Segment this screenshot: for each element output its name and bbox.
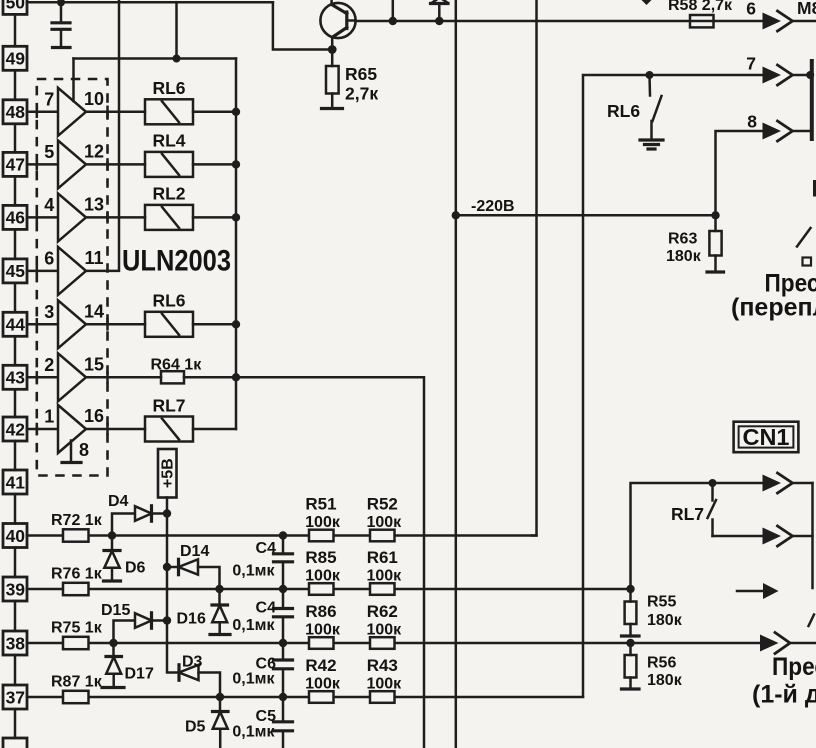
node junction D3/D5 on pin37 row (216, 693, 224, 701)
junction dot on ULN top rail (173, 55, 181, 63)
svg-text:R75 1к: R75 1к (51, 620, 103, 637)
buffer U1b pin 5 to pin 12 (44, 140, 104, 188)
svg-text:180к: 180к (666, 248, 702, 265)
node junction transistor emitter / R65 (328, 45, 337, 54)
svg-text:0,1мк: 0,1мк (232, 563, 275, 580)
svg-text:100к: 100к (366, 622, 402, 639)
resistor R63 180k (666, 215, 724, 272)
wire pin 50 row across top (27, 1, 273, 4)
resistor R65 2,7k (322, 50, 379, 109)
wire RL7 contact feed corner (631, 483, 763, 589)
wire rail corner down = relay bus x236 (235, 59, 238, 430)
svg-text:0,1мк: 0,1мк (232, 671, 275, 688)
node junction D4/D6 on pin40 row (108, 531, 116, 539)
capacitor C (top-left, to ground bar) (52, 2, 70, 47)
wire pin 43 to ULN input (27, 376, 58, 379)
node junction D14/D16 on pin39 row (215, 585, 223, 593)
node junction capacitor column (279, 693, 287, 701)
svg-text:3: 3 (44, 302, 54, 322)
node junction RL7 switch row (709, 479, 717, 487)
wire buffer output to relay (86, 111, 145, 114)
resistor R51 100k (305, 495, 341, 542)
wire vertical x536 from top down to pin40 row (532, 0, 537, 536)
pin 7 connector arrow (746, 54, 814, 86)
diode D17 (102, 643, 154, 688)
svg-text:C5: C5 (256, 708, 277, 725)
svg-text:(перепл: (перепл (731, 294, 816, 322)
wire pin 50 to pin 49 (14, 14, 17, 46)
node junction cap C at pin50 row (57, 0, 65, 6)
relay RL6 coil (145, 78, 193, 125)
svg-text:М8: М8 (797, 0, 816, 18)
svg-text:R63: R63 (668, 231, 697, 248)
relay RL4 coil (145, 130, 193, 177)
wire relay to bus (193, 163, 236, 166)
resistor R72 (51, 512, 103, 542)
wire pin 40 to pin 39 (14, 548, 17, 578)
svg-text:R85: R85 (305, 548, 336, 567)
svg-text:48: 48 (6, 102, 26, 122)
wire row 8 corner down to -220V row (716, 131, 763, 215)
wire relay to bus (193, 323, 236, 326)
svg-text:100к: 100к (305, 568, 341, 585)
node junction RL6 switch on row 7 (646, 71, 654, 79)
node junction R64 row on relay bus (232, 373, 240, 381)
svg-text:100к: 100к (305, 676, 341, 693)
svg-text:2: 2 (44, 355, 54, 375)
wire CN1 right edge vertical (811, 483, 814, 588)
wire pin 48 to pin 47 (14, 124, 17, 153)
svg-text:42: 42 (6, 419, 26, 439)
node stub up at x393 (389, 0, 397, 25)
connector pin 45 (3, 259, 27, 283)
resistor R87 (51, 674, 103, 704)
diode D6 (104, 536, 146, 582)
connector pin 36 (3, 738, 27, 748)
wire pin 45 to ULN input (27, 270, 58, 273)
ground symbol under RL6 switch (640, 140, 663, 149)
svg-text:R42: R42 (305, 656, 336, 675)
wire transistor collector row (356, 20, 763, 23)
svg-text:12: 12 (84, 141, 104, 161)
buffer U1f pin 2 to pin 15 (44, 353, 104, 401)
node junction capacitor column (279, 531, 287, 539)
connector edge bar right (810, 61, 814, 139)
node junction on relay bus (232, 320, 240, 328)
resistor R64 1k (151, 357, 203, 384)
connector pin 41 (3, 470, 27, 494)
wire net -220V (456, 214, 716, 217)
svg-text:41: 41 (6, 472, 26, 492)
svg-text:R51: R51 (305, 495, 336, 514)
power rail +5V vertical (167, 514, 179, 673)
svg-text:8: 8 (79, 440, 89, 460)
wire pin 41 to pin 40 (14, 494, 17, 524)
svg-text:46: 46 (6, 208, 26, 228)
capacitor C5 0,1mk (232, 697, 292, 748)
resistor R43 100k (366, 656, 402, 703)
svg-text:R86: R86 (305, 602, 336, 621)
buffer U1e pin 3 to pin 14 (44, 300, 104, 348)
resistor R58 2,7k (668, 0, 733, 27)
node junction +5V / D4 (163, 509, 171, 517)
svg-text:47: 47 (6, 155, 25, 175)
wire row 7 with corner down to pin37 row (583, 75, 763, 697)
svg-text:R87 1к: R87 1к (51, 674, 103, 691)
svg-text:R58 2,7к: R58 2,7к (668, 0, 733, 14)
node junction on relay bus (232, 160, 240, 168)
connector pin 46 (3, 205, 27, 229)
node junction R56 top on pin38 row (626, 639, 634, 647)
label CN1 (734, 422, 799, 453)
svg-text:RL2: RL2 (152, 183, 185, 203)
node junction on relay bus (232, 213, 240, 221)
svg-text:100к: 100к (366, 676, 402, 693)
node junction capacitor column (279, 639, 287, 647)
connector pin 44 (3, 312, 27, 336)
svg-text:49: 49 (6, 49, 26, 69)
svg-text:C4: C4 (256, 600, 277, 617)
svg-text:15: 15 (84, 354, 104, 374)
resistor R62 100k (366, 602, 402, 649)
svg-text:D16: D16 (177, 611, 206, 628)
svg-text:7: 7 (44, 89, 54, 109)
connector arrow CN1 row 3 (floating) (737, 583, 779, 599)
svg-text:8: 8 (747, 112, 757, 132)
buffer U1c pin 4 to pin 13 (44, 193, 104, 241)
wire corner pin50 row down to transistor emitter (273, 2, 328, 49)
wire vertical x119 top to buffer11 output (86, 0, 119, 271)
svg-text:1: 1 (44, 407, 54, 427)
capacitor C4 0,1mk (232, 589, 292, 643)
svg-text:180к: 180к (647, 672, 683, 689)
IC boundary dashed box ULN2003 (37, 79, 108, 476)
wire relay RL7 to bus end (193, 428, 236, 431)
svg-text:D3: D3 (182, 654, 203, 671)
connector pin 39 (3, 577, 27, 601)
node B: vertical from pin50 row down to ULN top rail (175, 2, 178, 58)
relay RL7 coil (145, 396, 193, 442)
node junction capacitor column (279, 585, 287, 593)
capacitor C4 0,1mk (232, 536, 292, 590)
relay RL2 coil (145, 183, 193, 230)
wire pin 42 to pin 41 (14, 441, 17, 470)
wire pin 40 row (27, 534, 537, 537)
svg-text:45: 45 (6, 261, 26, 281)
svg-text:40: 40 (6, 526, 26, 546)
wire pin 39 to pin 38 (14, 601, 17, 631)
connector pin 50 (3, 0, 27, 14)
resistor R55 180k (622, 589, 683, 636)
svg-text:D6: D6 (125, 560, 146, 577)
connector pin 37 (3, 685, 27, 709)
resistor R52 100k (366, 495, 402, 542)
wire buffer 15 output to R64 (86, 376, 161, 379)
relay contact RL7 (switch) (671, 483, 716, 536)
wire pin 38 to pin 37 (14, 655, 17, 685)
svg-text:100к: 100к (366, 514, 402, 531)
svg-text:39: 39 (6, 579, 26, 599)
svg-text:RL6: RL6 (152, 78, 185, 98)
buffer U1g pin 1 to pin 16 (44, 405, 104, 453)
svg-text:2,7к: 2,7к (345, 84, 378, 104)
svg-text:ULN2003: ULN2003 (122, 245, 231, 278)
node junction +5V / D15 (163, 616, 171, 624)
node junction -220V left (452, 211, 460, 219)
wire pin 45 to pin 44 (14, 283, 17, 312)
svg-text:4: 4 (44, 195, 54, 215)
svg-text:6: 6 (746, 0, 756, 19)
transistor Q (top middle) (320, 0, 355, 50)
wire relay to bus (193, 216, 236, 219)
connector pin 42 (3, 417, 27, 441)
wire pin 39 row (27, 588, 631, 591)
svg-text:180к: 180к (647, 612, 683, 629)
svg-text:11: 11 (84, 248, 103, 268)
right edge marks (clipped symbols) (797, 180, 816, 266)
node junction -220V right (711, 211, 719, 219)
svg-text:10: 10 (84, 89, 104, 109)
relay contact RL6 (switch to ground) (607, 75, 662, 139)
resistor R75 (51, 620, 103, 650)
wire pin 44 to ULN input (27, 323, 58, 326)
ground pin 8 of ULN2003 (62, 440, 89, 463)
diode D4 (108, 493, 167, 536)
svg-text:RL7: RL7 (152, 396, 185, 416)
svg-text:0,1мк: 0,1мк (232, 617, 275, 634)
power symbol +5V (158, 449, 177, 514)
svg-text:D5: D5 (185, 719, 206, 736)
diode D15 (101, 602, 167, 643)
svg-text:C4: C4 (256, 540, 277, 557)
wire pin 42 to ULN input (27, 428, 58, 431)
wire pin 44 to pin 43 (14, 336, 17, 365)
buffer U1d pin 6 to pin 11 (44, 247, 103, 295)
wire pin 37 row (27, 696, 583, 699)
svg-text:RL7: RL7 (671, 504, 704, 524)
capacitor C6 0,1mk (232, 643, 292, 697)
svg-text:D4: D4 (108, 493, 129, 510)
resistor R42 100k (305, 656, 341, 703)
connector arrow CN1 row 2 (713, 526, 813, 546)
svg-text:44: 44 (6, 315, 26, 335)
svg-text:CN1: CN1 (743, 424, 790, 450)
svg-text:RL6: RL6 (607, 101, 640, 121)
svg-text:R55: R55 (647, 594, 676, 611)
svg-text:D15: D15 (101, 602, 130, 619)
svg-text:D14: D14 (180, 543, 209, 560)
wire drop from rail onto buffer 1 (72, 59, 75, 102)
wire pin 37 to pin 36 (14, 709, 17, 738)
svg-text:R65: R65 (345, 64, 377, 84)
svg-text:7: 7 (746, 54, 756, 74)
resistor R86 100k (305, 602, 341, 649)
connector arrow CN1 row 1 (763, 473, 813, 493)
svg-text:R72 1к: R72 1к (51, 512, 103, 529)
svg-text:100к: 100к (366, 568, 402, 585)
svg-text:R62: R62 (367, 602, 398, 621)
resistor R61 100k (366, 548, 402, 595)
node junction D15/D17 on pin38 row (109, 639, 117, 647)
right edge switch mark (clipped) (809, 615, 815, 627)
wire pin 46 to pin 45 (14, 229, 17, 259)
wire pin 38 row (27, 642, 760, 645)
relay RL6 coil (145, 290, 193, 337)
wire buffer output to relay (86, 323, 145, 326)
small clipped arrow mark top edge (641, 0, 653, 5)
svg-text:(1-й д: (1-й д (752, 681, 816, 709)
svg-text:+5В: +5В (160, 458, 177, 488)
svg-text:0,1мк: 0,1мк (232, 724, 275, 741)
svg-text:R61: R61 (367, 548, 398, 567)
wire pin 43 to pin 42 (14, 389, 17, 417)
svg-text:R56: R56 (647, 655, 676, 672)
diode D3 (179, 654, 220, 698)
wire pin 46 to ULN input (27, 216, 58, 219)
connector pin 43 (3, 365, 27, 389)
resistor R76 (51, 566, 103, 596)
svg-text:100к: 100к (305, 622, 341, 639)
ground symbol (clipped) above collector row (431, 0, 449, 25)
svg-text:38: 38 (6, 633, 26, 653)
diode D5 (185, 697, 228, 748)
node junction on relay bus (232, 108, 240, 116)
svg-text:RL4: RL4 (152, 130, 185, 150)
wire pin 47 to ULN input (27, 163, 58, 166)
resistor R56 180k (622, 643, 683, 689)
pin 8 connector arrow (747, 112, 810, 142)
svg-text:16: 16 (84, 406, 104, 426)
svg-text:Прес: Прес (772, 653, 816, 681)
diode D16 (177, 589, 231, 635)
buffer U1a pin 7 to pin 10 (44, 88, 104, 136)
svg-text:37: 37 (6, 687, 25, 707)
wire buffer output to relay (86, 428, 145, 431)
pin 6 connector arrow (746, 0, 816, 31)
svg-text:14: 14 (84, 301, 104, 321)
svg-text:43: 43 (6, 368, 26, 388)
wire long vertical x456 full height (455, 0, 458, 748)
node junction +5V / D14 (163, 563, 171, 571)
wire pin 48 to ULN input (27, 111, 58, 114)
connector pin 40 (3, 524, 27, 548)
svg-text:50: 50 (6, 0, 26, 13)
connector pin 38 (3, 631, 27, 655)
svg-text:R52: R52 (367, 495, 398, 514)
svg-text:R76 1к: R76 1к (51, 566, 103, 583)
node junction R55 top (626, 585, 634, 593)
connector pin 49 (3, 46, 27, 70)
wire pin 47 to pin 46 (14, 176, 17, 205)
svg-text:-220В: -220В (471, 198, 515, 215)
wire R64 to corner down x424 (184, 377, 424, 748)
svg-text:RL6: RL6 (152, 290, 185, 310)
svg-text:R43: R43 (367, 656, 398, 675)
wire buffer output to relay (86, 216, 145, 219)
svg-text:5: 5 (44, 142, 54, 162)
connector pin 48 (3, 100, 27, 124)
wire relay to bus (193, 111, 236, 114)
svg-text:6: 6 (44, 248, 54, 268)
svg-text:13: 13 (84, 194, 104, 214)
svg-text:R64 1к: R64 1к (151, 357, 203, 374)
wire pin 49 to pin 48 (14, 70, 17, 100)
wire buffer output to relay (86, 163, 145, 166)
svg-text:100к: 100к (305, 514, 341, 531)
svg-text:D17: D17 (125, 666, 154, 683)
resistor R85 100k (305, 548, 341, 595)
diode D14 (167, 543, 220, 589)
connector arrow CN1 row 4 (760, 633, 816, 654)
wire ULN top rail (74, 57, 237, 60)
connector pin 47 (3, 152, 27, 176)
